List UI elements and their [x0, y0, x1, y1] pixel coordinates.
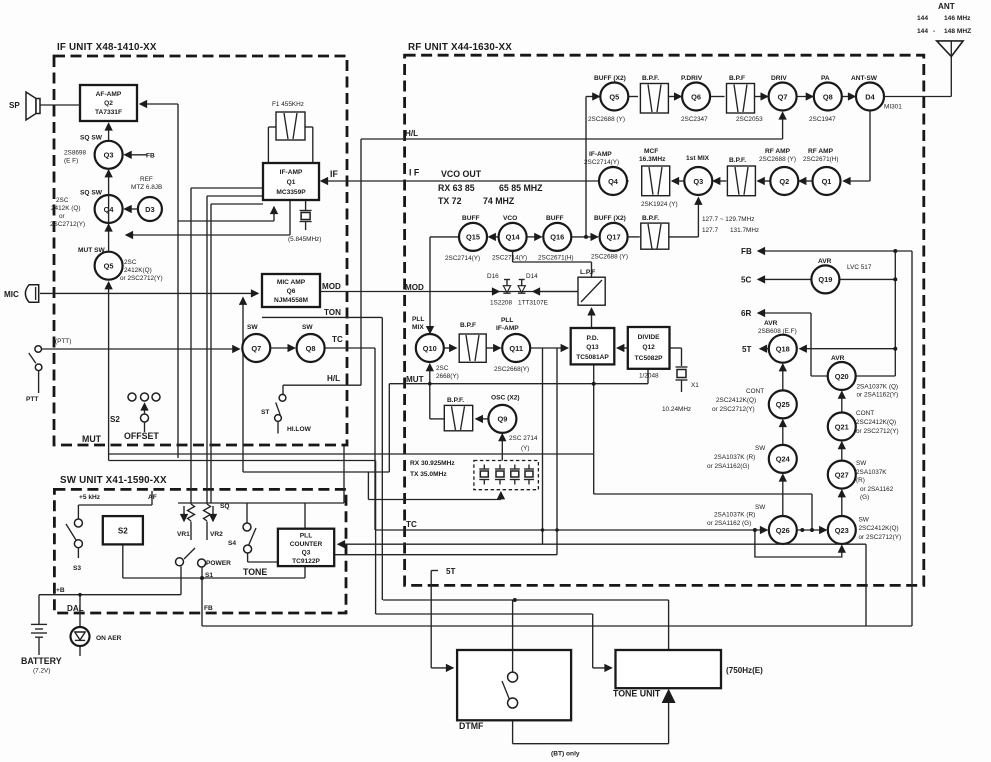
- svg-text:RX 63 85: RX 63 85: [438, 183, 475, 193]
- svg-text:2SC2668(Y): 2SC2668(Y): [494, 366, 529, 373]
- svg-text:AF-AMP: AF-AMP: [96, 91, 122, 98]
- svg-text:or 2SC2712(Y): or 2SC2712(Y): [859, 534, 902, 541]
- svg-text:PLL: PLL: [300, 533, 312, 540]
- svg-text:2SC2688 (Y): 2SC2688 (Y): [588, 116, 625, 123]
- svg-text:127.7 ~ 129.7MHz: 127.7 ~ 129.7MHz: [702, 216, 754, 223]
- svg-text:D16: D16: [487, 273, 499, 280]
- svg-text:6R: 6R: [741, 309, 752, 318]
- svg-text:(G): (G): [860, 494, 869, 501]
- svg-text:DIVIDE: DIVIDE: [638, 334, 661, 341]
- svg-text:SW: SW: [247, 324, 258, 331]
- svg-text:ON AER: ON AER: [96, 635, 122, 642]
- svg-text:TONE: TONE: [243, 567, 267, 577]
- svg-text:2S8698: 2S8698: [64, 150, 86, 157]
- svg-text:5T: 5T: [446, 567, 456, 576]
- svg-text:2SC1947: 2SC1947: [809, 116, 836, 123]
- svg-text:-: -: [933, 28, 935, 35]
- svg-text:RF AMP: RF AMP: [808, 148, 834, 155]
- svg-text:TON: TON: [324, 308, 341, 317]
- svg-text:2SC2671(H): 2SC2671(H): [803, 156, 839, 163]
- svg-text:H/L: H/L: [405, 129, 418, 138]
- svg-text:2SC2412K(Q): 2SC2412K(Q): [859, 525, 899, 532]
- svg-text:2SK1924 (Y): 2SK1924 (Y): [641, 201, 678, 208]
- svg-text:SW: SW: [755, 445, 766, 452]
- svg-text:MCF: MCF: [644, 148, 658, 155]
- svg-text:AVR: AVR: [831, 355, 845, 362]
- svg-text:+B: +B: [56, 587, 65, 594]
- svg-text:S1: S1: [205, 572, 213, 579]
- svg-text:S2: S2: [110, 415, 120, 424]
- svg-text:IF UNIT X48-1410-XX: IF UNIT X48-1410-XX: [57, 42, 157, 53]
- svg-text:BUFF: BUFF: [546, 215, 564, 222]
- svg-text:Q26: Q26: [776, 526, 790, 535]
- svg-text:IF-AMP: IF-AMP: [496, 325, 519, 332]
- svg-text:MOD: MOD: [322, 282, 341, 291]
- svg-text:BUFF (X2): BUFF (X2): [594, 215, 626, 222]
- svg-text:B.P.F.: B.P.F.: [642, 75, 659, 82]
- svg-text:Q3: Q3: [104, 151, 114, 160]
- svg-text:2SC2347: 2SC2347: [681, 116, 708, 123]
- svg-text:SW: SW: [755, 504, 766, 511]
- svg-text:PTT: PTT: [26, 396, 38, 403]
- svg-text:VR1: VR1: [177, 531, 190, 538]
- svg-text:S2: S2: [118, 527, 128, 536]
- svg-text:TX 72: TX 72: [438, 196, 462, 206]
- svg-text:2412K (Q): 2412K (Q): [51, 205, 80, 212]
- svg-text:Q2: Q2: [779, 177, 789, 186]
- svg-text:74 MHZ: 74 MHZ: [483, 196, 515, 206]
- svg-text:2SC2714(Y): 2SC2714(Y): [584, 159, 619, 166]
- svg-text:AF: AF: [148, 494, 157, 501]
- svg-text:2SA1037K: 2SA1037K: [856, 469, 887, 476]
- svg-text:X1: X1: [691, 382, 699, 389]
- svg-text:144: 144: [917, 28, 928, 35]
- svg-text:D4: D4: [865, 92, 875, 101]
- svg-text:2SB608 (E.F): 2SB608 (E.F): [758, 328, 797, 335]
- svg-text:Q2: Q2: [104, 100, 113, 107]
- svg-text:2SC2412K(Q): 2SC2412K(Q): [716, 397, 756, 404]
- svg-text:ST: ST: [261, 409, 269, 416]
- svg-text:MUT: MUT: [406, 375, 424, 384]
- svg-text:Q6: Q6: [691, 92, 701, 101]
- svg-text:NJM4558M: NJM4558M: [274, 297, 309, 304]
- svg-text:Q13: Q13: [586, 344, 599, 351]
- svg-text:(BT) only: (BT) only: [551, 751, 580, 758]
- svg-text:144: 144: [917, 15, 928, 22]
- svg-text:Q23: Q23: [835, 526, 849, 535]
- svg-text:Q19: Q19: [818, 275, 832, 284]
- svg-text:IF: IF: [330, 169, 338, 179]
- svg-text:Q16: Q16: [550, 233, 564, 242]
- svg-text:FB: FB: [146, 152, 155, 159]
- svg-text:2668(Y): 2668(Y): [436, 373, 459, 380]
- svg-text:or 2SC2712(Y): or 2SC2712(Y): [120, 275, 163, 282]
- svg-text:BATTERY: BATTERY: [21, 656, 62, 666]
- svg-text:Q27: Q27: [835, 470, 849, 479]
- svg-text:127.7: 127.7: [702, 227, 718, 234]
- svg-text:(PTT): (PTT): [55, 338, 71, 345]
- svg-text:(750Hz(E): (750Hz(E): [726, 666, 763, 675]
- svg-text:PLL: PLL: [501, 317, 513, 324]
- svg-text:HI.LOW: HI.LOW: [287, 426, 312, 433]
- svg-text:MIX: MIX: [412, 324, 424, 331]
- svg-text:(Y): (Y): [521, 445, 530, 452]
- svg-text:or: or: [59, 213, 66, 220]
- svg-text:Q3: Q3: [302, 550, 311, 557]
- svg-text:SW: SW: [859, 517, 870, 524]
- svg-text:Q10: Q10: [423, 344, 437, 353]
- svg-text:REF: REF: [140, 176, 153, 183]
- svg-text:POWER: POWER: [206, 560, 231, 567]
- svg-text:2SC2714(Y): 2SC2714(Y): [445, 255, 480, 262]
- svg-text:B.P.F.: B.P.F.: [447, 397, 464, 404]
- svg-text:B.P.F.: B.P.F.: [729, 157, 746, 164]
- svg-text:D3: D3: [145, 205, 154, 214]
- svg-text:MTZ 6.8JB: MTZ 6.8JB: [131, 184, 162, 191]
- svg-text:1st MIX: 1st MIX: [686, 155, 710, 162]
- svg-text:SQ: SQ: [220, 503, 230, 510]
- svg-text:Q7: Q7: [251, 344, 261, 353]
- svg-text:TC5082P: TC5082P: [635, 355, 663, 362]
- svg-text:F1 455KHz: F1 455KHz: [272, 101, 304, 108]
- svg-text:TC: TC: [406, 520, 417, 529]
- svg-text:1S2208: 1S2208: [490, 300, 512, 307]
- svg-text:SW: SW: [856, 460, 867, 467]
- svg-text:2SC: 2SC: [56, 197, 69, 204]
- svg-text:MOD: MOD: [405, 283, 424, 292]
- svg-text:Q12: Q12: [642, 344, 655, 351]
- svg-text:Q14: Q14: [506, 233, 521, 242]
- svg-text:S4: S4: [228, 540, 236, 547]
- svg-text:5C: 5C: [741, 276, 752, 285]
- svg-text:(7.2V): (7.2V): [33, 668, 50, 675]
- svg-text:2SA1037K (R): 2SA1037K (R): [714, 454, 755, 461]
- svg-text:LVC 517: LVC 517: [847, 264, 872, 271]
- svg-text:Q11: Q11: [509, 344, 523, 353]
- svg-text:CONT: CONT: [856, 410, 874, 417]
- svg-text:PA: PA: [821, 75, 830, 82]
- svg-text:RF UNIT X44-1630-XX: RF UNIT X44-1630-XX: [408, 42, 512, 53]
- svg-text:MUT SW: MUT SW: [78, 247, 106, 254]
- svg-text:B.P.F: B.P.F: [729, 75, 745, 82]
- svg-text:OSC (X2): OSC (X2): [491, 395, 520, 402]
- svg-text:Q1: Q1: [287, 179, 296, 186]
- svg-text:+5 kHz: +5 kHz: [79, 494, 101, 501]
- svg-text:VCO: VCO: [503, 215, 517, 222]
- svg-text:16.3MHz: 16.3MHz: [639, 156, 666, 163]
- svg-text:MIC AMP: MIC AMP: [277, 279, 306, 286]
- svg-text:TA7331F: TA7331F: [95, 109, 122, 116]
- svg-text:2SA1037K (Q): 2SA1037K (Q): [857, 384, 899, 391]
- svg-text:COUNTER: COUNTER: [290, 541, 323, 548]
- svg-text:(R): (R): [856, 477, 865, 484]
- svg-text:D14: D14: [526, 273, 538, 280]
- svg-text:or 2SA1162(Y): or 2SA1162(Y): [857, 391, 899, 398]
- svg-text:Q18: Q18: [776, 345, 790, 354]
- svg-text:B.P.F: B.P.F: [460, 322, 476, 329]
- svg-text:S3: S3: [73, 565, 81, 572]
- svg-text:SW UNIT X41-1590-XX: SW UNIT X41-1590-XX: [60, 475, 167, 486]
- svg-text:TC9122P: TC9122P: [292, 558, 320, 565]
- svg-text:2SC2053: 2SC2053: [736, 116, 763, 123]
- svg-text:2SC2688 (Y): 2SC2688 (Y): [759, 156, 796, 163]
- svg-text:P.DRIV: P.DRIV: [681, 75, 703, 82]
- svg-text:148 MHZ: 148 MHZ: [944, 28, 971, 35]
- svg-text:OFFSET: OFFSET: [124, 431, 159, 441]
- svg-text:or 2SA1162(G): or 2SA1162(G): [707, 463, 750, 470]
- svg-text:Q17: Q17: [607, 233, 621, 242]
- svg-text:(E F): (E F): [64, 158, 78, 165]
- svg-text:IF-AMP: IF-AMP: [589, 151, 612, 158]
- svg-text:2SC2412K(Q): 2SC2412K(Q): [856, 419, 896, 426]
- svg-text:or 2SA1162: or 2SA1162: [860, 486, 894, 493]
- svg-text:SP: SP: [9, 101, 20, 110]
- svg-text:PLL: PLL: [412, 316, 424, 323]
- svg-text:2SC2671(H): 2SC2671(H): [538, 255, 574, 262]
- svg-text:2412K(Q): 2412K(Q): [124, 267, 152, 274]
- svg-text:Q5: Q5: [609, 92, 619, 101]
- svg-text:146 MHz: 146 MHz: [944, 15, 971, 22]
- svg-text:Q20: Q20: [835, 372, 849, 381]
- svg-text:RX 30.925MHz: RX 30.925MHz: [410, 460, 455, 467]
- svg-text:B.P.F.: B.P.F.: [642, 215, 659, 222]
- svg-text:ANT: ANT: [938, 2, 955, 11]
- svg-text:2SC: 2SC: [124, 259, 137, 266]
- svg-text:FB: FB: [204, 605, 213, 612]
- svg-text:Q1: Q1: [822, 177, 832, 186]
- svg-text:IF-AMP: IF-AMP: [280, 169, 303, 176]
- svg-text:AVR: AVR: [818, 258, 832, 265]
- svg-text:Q9: Q9: [497, 415, 507, 424]
- svg-text:2SC 2714: 2SC 2714: [509, 435, 538, 442]
- svg-text:Q7: Q7: [778, 92, 788, 101]
- svg-text:MIC: MIC: [4, 290, 19, 299]
- svg-text:(5.845MHz): (5.845MHz): [288, 236, 321, 243]
- svg-text:H/L: H/L: [327, 374, 340, 383]
- svg-text:65 85 MHZ: 65 85 MHZ: [499, 183, 543, 193]
- svg-text:VCO OUT: VCO OUT: [441, 169, 482, 179]
- svg-text:FB: FB: [741, 247, 752, 256]
- svg-text:CONT: CONT: [746, 388, 764, 395]
- svg-text:L.P.F: L.P.F: [580, 269, 595, 276]
- svg-text:2SC: 2SC: [436, 365, 449, 372]
- svg-text:TC: TC: [332, 335, 343, 344]
- svg-text:Q6: Q6: [287, 288, 296, 295]
- svg-text:2SC2688 (Y): 2SC2688 (Y): [591, 254, 628, 261]
- svg-text:SQ SW: SQ SW: [80, 135, 103, 142]
- svg-text:or 2SA1162 (G): or 2SA1162 (G): [707, 520, 751, 527]
- svg-text:VR2: VR2: [210, 531, 223, 538]
- svg-text:RF AMP: RF AMP: [765, 148, 791, 155]
- svg-text:Q8: Q8: [823, 92, 833, 101]
- svg-text:Q24: Q24: [776, 455, 791, 464]
- svg-text:DRIV: DRIV: [771, 75, 787, 82]
- svg-text:Q3: Q3: [693, 177, 703, 186]
- svg-text:MUT: MUT: [82, 434, 102, 444]
- svg-text:TC5081AP: TC5081AP: [576, 354, 609, 361]
- svg-text:Q4: Q4: [608, 177, 619, 186]
- svg-text:1/2048: 1/2048: [639, 373, 659, 380]
- svg-text:or 2SC2712(Y): or 2SC2712(Y): [712, 406, 755, 413]
- svg-text:TX 35.0MHz: TX 35.0MHz: [410, 471, 447, 478]
- svg-text:BUFF (X2): BUFF (X2): [594, 75, 626, 82]
- svg-text:ANT-SW: ANT-SW: [851, 75, 878, 82]
- svg-text:TONE UNIT: TONE UNIT: [613, 689, 661, 699]
- svg-text:P.D.: P.D.: [587, 335, 599, 342]
- svg-text:Q5: Q5: [104, 262, 114, 271]
- svg-text:AVR: AVR: [764, 320, 778, 327]
- svg-text:Q21: Q21: [835, 422, 849, 431]
- svg-text:2SC2712(Y): 2SC2712(Y): [50, 221, 85, 228]
- svg-text:MI301: MI301: [884, 104, 902, 111]
- svg-text:131.7MHz: 131.7MHz: [730, 227, 759, 234]
- svg-text:5T: 5T: [742, 345, 752, 354]
- svg-text:MC3359P: MC3359P: [276, 189, 306, 196]
- svg-text:SQ SW: SQ SW: [80, 190, 103, 197]
- svg-text:2SA1037K (R): 2SA1037K (R): [714, 512, 755, 519]
- svg-text:2SC2714(Y): 2SC2714(Y): [492, 255, 527, 262]
- svg-text:Q8: Q8: [306, 344, 316, 353]
- svg-text:DTMF: DTMF: [459, 721, 484, 731]
- svg-text:1TT3107E: 1TT3107E: [518, 300, 548, 307]
- svg-text:10.24MHz: 10.24MHz: [662, 406, 691, 413]
- svg-text:Q25: Q25: [776, 400, 790, 409]
- svg-text:BUFF: BUFF: [462, 215, 480, 222]
- svg-text:Q15: Q15: [466, 233, 480, 242]
- svg-text:I F: I F: [409, 168, 420, 178]
- svg-text:SW: SW: [302, 324, 313, 331]
- svg-text:or 2SC2712(Y): or 2SC2712(Y): [856, 428, 899, 435]
- svg-text:DAL: DAL: [67, 604, 84, 613]
